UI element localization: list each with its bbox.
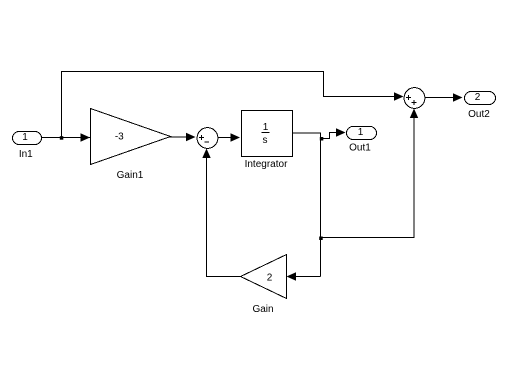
svg-text:Gain1: Gain1	[117, 170, 144, 181]
gain Gain1	[91, 109, 171, 165]
svg-text:2: 2	[267, 273, 273, 284]
wire Integrator output down feedback	[292, 133, 321, 277]
svg-text:1: 1	[22, 132, 28, 143]
wire node A to Sum2 feedthrough	[62, 72, 404, 138]
outport Out2	[465, 92, 496, 105]
wire feedback to Gain input	[287, 272, 321, 280]
wire In1 to Gain1	[42, 133, 90, 141]
integrator U1	[242, 111, 293, 157]
svg-text:1: 1	[263, 122, 269, 133]
junction node C	[319, 237, 323, 241]
wire Gain1 to Sum1	[170, 133, 196, 141]
svg-text:Out1: Out1	[349, 143, 371, 154]
svg-text:Out2: Out2	[468, 109, 490, 120]
sum Sum2	[404, 88, 425, 109]
svg-text:Gain: Gain	[252, 304, 273, 315]
svg-text:-3: -3	[115, 132, 124, 143]
sum Sum1	[197, 128, 218, 149]
wire Sum1 to Integrator	[218, 133, 240, 141]
wire node B to Out1	[321, 128, 346, 138]
junction node B	[320, 137, 324, 141]
svg-text:s: s	[263, 135, 268, 146]
gain Gain feedback	[241, 255, 287, 299]
wire Gain to Sum1	[202, 149, 240, 277]
svg-text:1: 1	[358, 127, 364, 138]
svg-text:2: 2	[475, 92, 481, 103]
inport In1	[13, 132, 42, 145]
svg-text:Integrator: Integrator	[245, 159, 288, 170]
outport Out1	[347, 127, 377, 140]
wire Sum2 to Out2	[425, 93, 463, 101]
wire node C to Sum2	[321, 109, 418, 238]
junction node A	[60, 136, 64, 140]
svg-text:In1: In1	[19, 149, 33, 160]
